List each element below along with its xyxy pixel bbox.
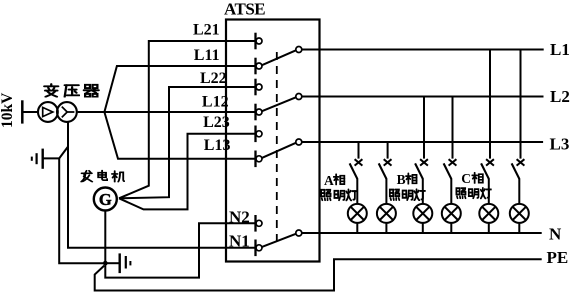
generator G circle [94,188,117,211]
wire from ground corner down to PEN junction [59,158,103,263]
wire drop from bus [358,142,360,159]
svg-text:L12: L12 [202,93,229,110]
transformer T1 primary winding circle [38,102,58,122]
wire L22 from generator to contact 3 [119,87,256,198]
lamp branch 6 (from L1) [510,50,529,234]
hinge circle output L2 [296,94,302,100]
terminal bar 10kV [21,100,24,123]
lamp branch 5 (from L1) [479,50,498,234]
contact bar L21 [254,33,256,50]
ground electrode (right of junction) bars [108,262,120,264]
contact circle L11 [256,63,262,69]
lamp EL [348,204,367,223]
switch SA x-mark [449,159,457,165]
lamp branch 3 (from L2) [413,97,432,234]
wire PE branch from junction to PE bus [95,259,542,290]
transformer T1 secondary winding circle [57,102,77,122]
label 变压器 (transformer) [44,84,98,97]
contact bar L12 [254,104,256,121]
switch SA blade [350,163,358,178]
svg-text:L11: L11 [194,47,220,64]
label 相 of A相 [334,174,345,185]
svg-text:L2: L2 [550,87,570,106]
wire lamp to N [518,223,520,233]
ATSE internals [256,33,302,256]
wire to lamp [422,178,424,204]
svg-text:L1: L1 [550,40,570,59]
contact circle L23 [256,131,262,137]
wire L11 from transformer fan to contact 2 [104,66,255,112]
wire L13 from transformer fan to contact 6 [104,112,255,159]
wire lamp to N [488,223,490,233]
svg-text:L13: L13 [204,137,231,154]
wire 10kV feed to transformer [22,111,38,113]
wire to lamp [518,178,520,204]
switch SA x-mark [355,159,363,165]
svg-text:L21: L21 [193,22,220,39]
transformer T1 wye symbol [62,107,75,118]
lamp EL [479,204,498,223]
wire drop from bus [423,97,425,159]
wire drop from bus [520,50,522,159]
hinge circle output L1 [296,47,302,53]
wire L12 transformer main line to contact 4 [78,111,256,113]
wire to lamp [385,178,387,204]
contact bar L13 [254,151,256,168]
lamp branch 1 (from L3) [348,142,367,233]
contact bar N1 [254,240,256,257]
switch SA blade [415,163,423,178]
wire ground tap from transformer neutral [42,147,68,159]
wire generator stem down, to N2 contact [105,211,256,278]
hinge circle output L3 [296,139,302,145]
wire drop from bus [387,142,389,159]
lamp branch 2 (from L3) [377,142,396,233]
transformer T1 delta symbol [43,107,53,116]
wire lamp to N [422,223,424,233]
svg-text:ATSE: ATSE [224,0,265,19]
wire lamp to N [385,223,387,233]
label 发电机 (generator) [81,170,124,181]
ATSE enclosure box [226,20,320,262]
ground electrode (left) bars [42,149,44,169]
lamp branch 4 (from L2) [442,97,461,234]
label 相 of B相 [406,173,417,184]
wire to lamp [450,178,452,204]
wire lamp to N [450,223,452,233]
switch SA blade [379,163,387,178]
wire transformer neutral down and to N1 contact [68,122,256,248]
contact circle L22 [256,84,262,90]
wire to lamp [488,178,490,204]
bus L2 [301,96,543,98]
mechanical linkage dashed line [276,52,278,241]
wire L21 from generator to contact 1 [119,41,256,198]
lamp EL [377,204,396,223]
wire to lamp [356,178,358,204]
svg-text:L22: L22 [200,70,227,87]
bus L1 [301,49,543,51]
svg-text:N2: N2 [229,207,250,226]
wire drop from bus [489,50,491,159]
contact circle N1 [256,245,262,251]
contact bar N2 [254,215,256,232]
lamp EL [442,204,461,223]
contact circle L13 [256,156,262,162]
svg-text:A: A [324,173,334,188]
svg-text:B: B [397,172,406,187]
contact circle L12 [256,109,262,115]
contact bar L23 [254,126,256,143]
lamp EL [413,204,432,223]
wire drop from bus [452,97,454,159]
switch blade 2 (L12-L2) [262,97,297,111]
contact bar L11 [254,58,256,75]
label 照明灯 under C相 [456,188,491,199]
label 相 of C相 [472,173,483,184]
switch SA x-mark [517,159,525,165]
svg-text:C: C [461,171,471,186]
wire lamp to N [356,223,358,233]
switch SA blade [444,163,452,178]
switch blade 1 (L11-L1) [262,50,297,65]
contact circle L21 [256,38,262,44]
switch SA x-mark [420,159,428,165]
wire L23 from generator to contact 5 [119,134,256,210]
contact circle N2 [256,220,262,226]
contact bar L22 [254,79,256,96]
bus N [301,232,541,234]
svg-text:L3: L3 [550,134,570,153]
label 照明灯 under B相 [390,189,426,200]
svg-text:G: G [99,190,112,209]
lamp branch circuits [348,50,529,234]
switch SA blade [481,163,489,178]
bus L3 [301,141,543,143]
lamp EL [510,204,529,223]
switch SA x-mark [486,159,494,165]
svg-text:N: N [549,225,562,244]
svg-text:N1: N1 [229,232,250,251]
junction dot PEN [103,261,108,266]
switch blade 3 (L13-L3) [262,143,297,158]
switch SA x-mark [384,159,392,165]
hinge circle output N [296,230,302,236]
svg-text:L23: L23 [203,114,230,131]
svg-text:PE: PE [547,248,569,267]
switch SA blade [512,163,520,178]
svg-text:10kV: 10kV [0,92,16,128]
switch blade 4 (N1-N) [262,234,297,247]
label 照明灯 under A相 [321,190,357,201]
